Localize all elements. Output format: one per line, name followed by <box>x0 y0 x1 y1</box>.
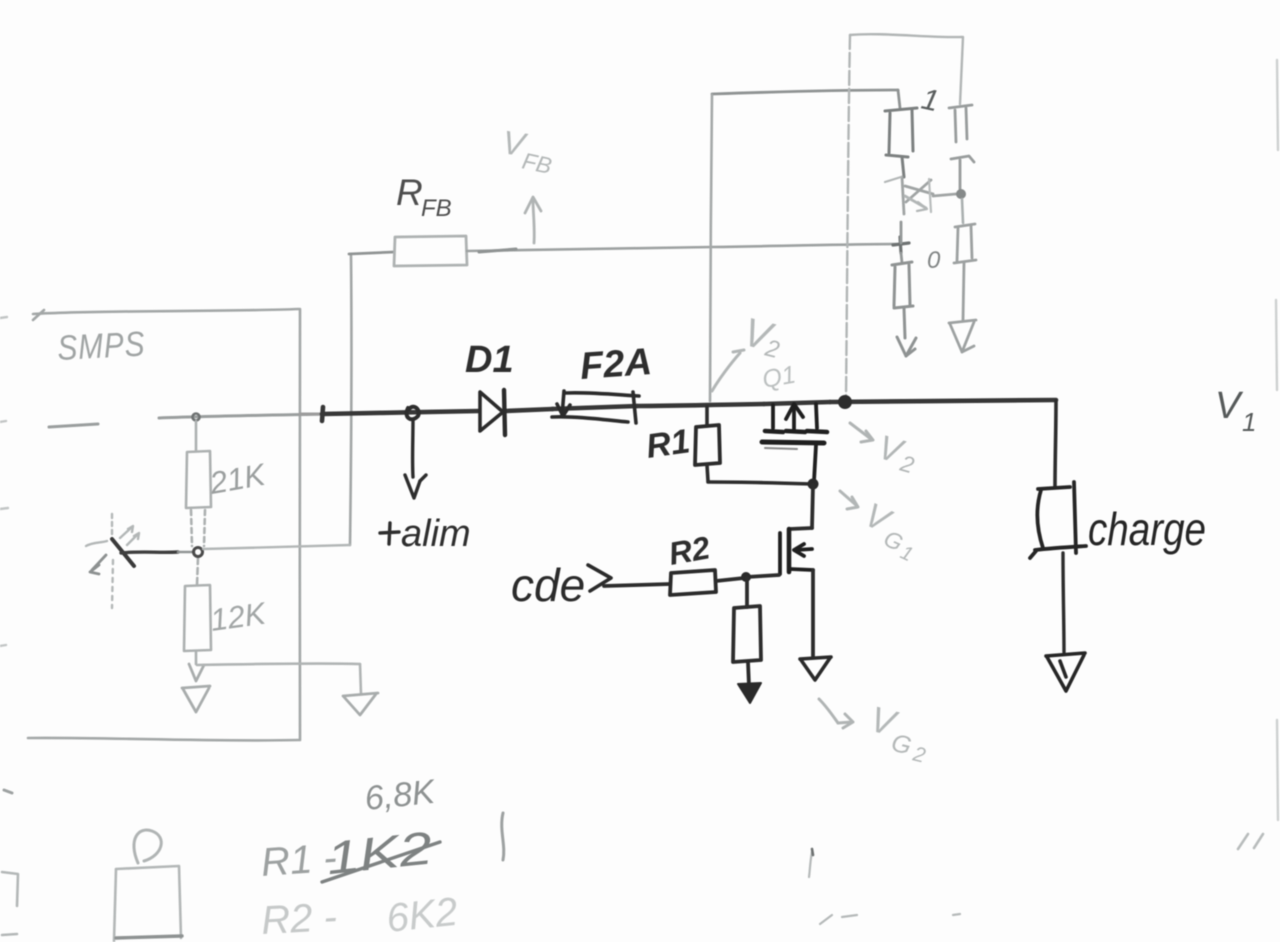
LED arrow (gray) <box>90 555 106 574</box>
wire gate node to Q2 drain <box>790 485 813 529</box>
LED optocoupler (in SMPS) <box>86 514 139 608</box>
sketch box (faint) <box>114 866 182 941</box>
stray mark far left <box>4 790 12 793</box>
wire LED to divider node <box>121 552 178 553</box>
wire to right ground <box>197 664 361 694</box>
ground (right of SMPS) <box>343 693 378 715</box>
resistor 12K (in SMPS) <box>184 558 211 664</box>
wire left of R_FB <box>349 252 394 254</box>
wire R1 top <box>705 407 709 426</box>
svg-text:R: R <box>396 172 423 213</box>
ground (Q2 source) <box>800 657 831 680</box>
svg-text:1: 1 <box>1242 407 1256 437</box>
label V1 <box>1215 385 1256 437</box>
scan artifacts right edge <box>1276 60 1278 820</box>
svg-text:R1: R1 <box>644 422 692 466</box>
svg-text:6K2: 6K2 <box>384 890 459 941</box>
node divider top junction <box>193 414 200 421</box>
stray marks bottom right <box>1238 834 1263 849</box>
label V_FB <box>500 123 554 179</box>
label V_G2 (faint) <box>819 699 853 728</box>
node collector junction <box>956 189 966 199</box>
wire Q2 source to ground <box>811 570 815 656</box>
arrow V_FB <box>525 197 541 243</box>
resistor R2 <box>670 570 716 595</box>
ground (charge) <box>1046 653 1085 691</box>
svg-text:2: 2 <box>910 742 928 767</box>
node divider junction <box>194 548 203 557</box>
wire vertical feedback drop <box>350 256 351 545</box>
fuse F2A <box>552 391 639 423</box>
diode D1 <box>480 390 505 435</box>
resistor charge (load) <box>1030 482 1086 558</box>
label V2 (right of Q1) <box>850 423 873 442</box>
wire SMPS internal output <box>49 414 330 427</box>
wire emitter to RE <box>901 222 902 263</box>
resistor R3 pulldown <box>733 578 761 662</box>
svg-text:FB: FB <box>421 195 452 222</box>
svg-text:21K: 21K <box>206 457 269 501</box>
svg-text:Q1: Q1 <box>760 361 798 394</box>
stray pencil slip bottom middle <box>809 849 960 924</box>
resistor RB (upper-right of sub-circuit) <box>949 105 974 189</box>
svg-text:cde: cde <box>511 559 585 611</box>
label SMPS <box>56 324 146 368</box>
wire R_FB to emitter node <box>467 244 898 251</box>
node R2 junction <box>741 572 751 582</box>
wire charge to ground <box>1063 553 1064 652</box>
note 1K2 crossed <box>324 821 435 884</box>
svg-text:1: 1 <box>919 83 942 119</box>
scan artifacts left edge <box>0 317 8 646</box>
stray pencil stroke <box>502 813 504 860</box>
wire V1 drop <box>1055 401 1056 487</box>
sketch D (faint) <box>134 830 161 863</box>
node gate junction <box>808 479 819 490</box>
ground arrow (below RE) <box>897 308 916 356</box>
label V2 sense (leader above Q1) <box>712 350 744 391</box>
svg-text:V: V <box>1215 385 1244 427</box>
label V_G1 (faint) <box>840 491 858 509</box>
wire +alim drop <box>405 420 426 498</box>
node emitter junction on feedback wire <box>893 237 909 253</box>
node main junction (box drop) <box>838 395 852 409</box>
resistor 21K (in SMPS) <box>186 421 211 546</box>
SMPS box outline <box>28 309 300 740</box>
svg-text:alim: alim <box>401 513 471 555</box>
wire vertical V2 sense drop <box>710 95 712 401</box>
label R_FB <box>396 172 452 222</box>
resistor R_FB <box>394 236 467 266</box>
resistor R1 <box>695 425 720 465</box>
svg-text:F2A: F2A <box>579 341 654 388</box>
wire R2 to gate <box>716 575 779 581</box>
resistor RA (upper-left of sub-circuit) <box>885 108 917 177</box>
label +alim <box>380 513 471 555</box>
junction tick on feedback wire <box>479 249 516 252</box>
ground (below 12K) <box>182 664 210 712</box>
svg-text:12K: 12K <box>208 595 269 638</box>
svg-text:D1: D1 <box>465 339 514 381</box>
transistor Q2 (N-MOSFET) <box>780 529 813 574</box>
transistor Q1 (P-MOSFET) <box>762 404 827 481</box>
wire top link <box>712 90 900 108</box>
ground (below RC) <box>949 320 976 352</box>
svg-text:R2 -: R2 - <box>260 895 338 942</box>
svg-text:0: 0 <box>927 247 941 274</box>
svg-text:R2: R2 <box>666 529 713 572</box>
sketch small box (left edge) <box>2 872 18 935</box>
wire collector to RC <box>962 199 963 223</box>
wire feedback to LED node <box>203 545 350 549</box>
LED cathode stroke (dark) <box>112 539 134 566</box>
wire cde to R2 <box>604 584 670 586</box>
node +alim tap <box>407 407 419 420</box>
wire R1 bottom to gate node <box>707 465 812 484</box>
resistor RC (right-lower of sub-circuit) <box>954 224 976 320</box>
box sub-circuit outline <box>846 34 963 397</box>
svg-text:FB: FB <box>520 147 554 179</box>
wire and arrow to ground (pulldown) <box>748 662 749 686</box>
ground (pulldown, filled arrow) <box>738 683 761 703</box>
svg-text:6,8K: 6,8K <box>363 773 438 818</box>
svg-text:G: G <box>889 729 915 761</box>
svg-text:SMPS: SMPS <box>56 324 146 368</box>
wire main rail left stub (light) <box>300 413 323 416</box>
arrow cde input <box>588 565 611 591</box>
wire main rail <box>322 400 1056 421</box>
transistor QS (sub-circuit BJT) <box>885 177 956 214</box>
resistor RE (below emitter) <box>892 262 913 308</box>
svg-text:charge: charge <box>1088 503 1206 555</box>
